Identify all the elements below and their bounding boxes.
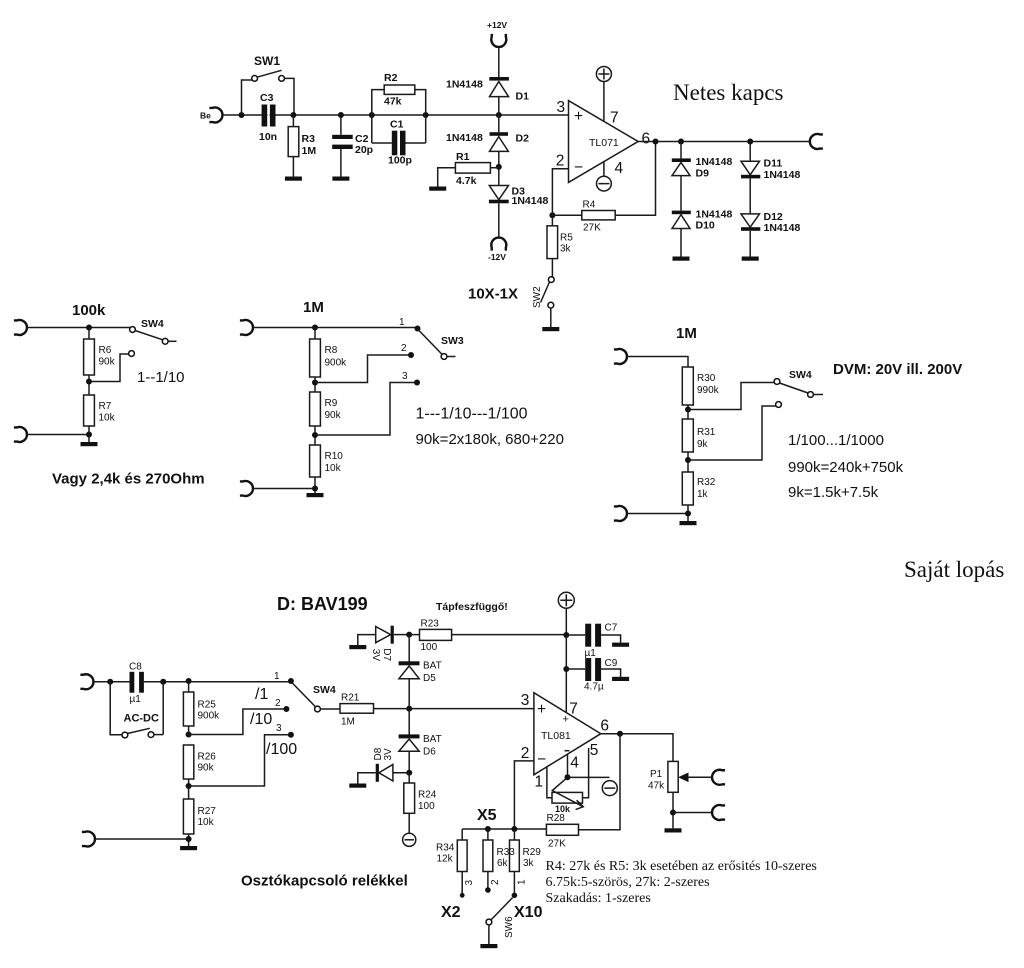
svg-text:SW4: SW4: [313, 684, 336, 696]
svg-text:27K: 27K: [583, 223, 601, 234]
svg-text:R21: R21: [341, 693, 360, 704]
svg-text:R31: R31: [697, 427, 716, 438]
svg-text:R26: R26: [198, 752, 217, 763]
svg-text:6: 6: [600, 718, 609, 735]
svg-text:4: 4: [570, 755, 579, 772]
svg-text:R3: R3: [302, 133, 316, 145]
svg-text:10k: 10k: [325, 463, 342, 474]
svg-text:9k: 9k: [697, 439, 709, 450]
svg-text:2: 2: [521, 745, 530, 762]
svg-text:900k: 900k: [325, 358, 348, 369]
svg-text:1/100...1/1000: 1/100...1/1000: [788, 432, 884, 449]
svg-text:1M: 1M: [341, 717, 355, 728]
svg-text:2: 2: [275, 698, 281, 709]
svg-text:R9: R9: [325, 398, 338, 409]
svg-text:47k: 47k: [648, 781, 665, 792]
svg-text:3: 3: [276, 723, 282, 734]
svg-text:100k: 100k: [72, 302, 106, 319]
svg-text:R23: R23: [421, 619, 440, 630]
svg-text:10k: 10k: [198, 817, 215, 828]
svg-text:1N4148: 1N4148: [764, 169, 801, 181]
svg-text:SW4: SW4: [789, 369, 812, 381]
svg-text:3k: 3k: [523, 858, 535, 869]
svg-text:20p: 20p: [355, 144, 373, 156]
svg-text:1M: 1M: [676, 325, 697, 342]
svg-text:6.75k:5-szörös, 27k: 2-szeres: 6.75k:5-szörös, 27k: 2-szeres: [546, 875, 710, 890]
svg-text:90k=2x180k, 680+220: 90k=2x180k, 680+220: [416, 431, 564, 448]
svg-text:C8: C8: [129, 662, 142, 673]
svg-text:D11: D11: [764, 158, 783, 170]
svg-text:R30: R30: [697, 373, 716, 384]
svg-text:100p: 100p: [388, 155, 412, 167]
svg-text:1: 1: [399, 317, 405, 328]
svg-text:90k: 90k: [325, 410, 342, 421]
svg-text:10n: 10n: [259, 131, 277, 143]
svg-text:C7: C7: [605, 623, 618, 634]
svg-text:R27: R27: [198, 806, 217, 817]
svg-text:R10: R10: [325, 451, 344, 462]
svg-text:DVM: 20V ill. 200V: DVM: 20V ill. 200V: [833, 361, 962, 378]
svg-text:3V: 3V: [370, 649, 381, 662]
svg-text:D2: D2: [516, 133, 530, 145]
svg-text:4.7k: 4.7k: [456, 175, 477, 187]
svg-text:R28: R28: [547, 813, 566, 824]
svg-text:100: 100: [421, 642, 438, 653]
svg-text:1N4148: 1N4148: [446, 132, 483, 144]
svg-text:D: BAV199: D: BAV199: [277, 594, 368, 614]
svg-text:10X-1X: 10X-1X: [468, 286, 518, 303]
svg-text:9k=1.5k+7.5k: 9k=1.5k+7.5k: [788, 484, 879, 501]
svg-text:7: 7: [569, 701, 578, 718]
svg-text:R6: R6: [99, 345, 112, 356]
svg-text:3: 3: [557, 99, 566, 116]
svg-text:1: 1: [535, 774, 544, 791]
svg-text:1M: 1M: [302, 145, 317, 157]
svg-text:+12V: +12V: [487, 20, 507, 30]
svg-text:BAT: BAT: [423, 661, 442, 672]
svg-text:Szakadás: 1-szeres: Szakadás: 1-szeres: [546, 891, 651, 906]
svg-text:1--1/10: 1--1/10: [137, 369, 185, 386]
svg-text:27K: 27K: [548, 839, 566, 850]
svg-text:Vagy 2,4k és 270Ohm: Vagy 2,4k és 270Ohm: [52, 471, 205, 488]
svg-text:µ1: µ1: [130, 694, 142, 705]
svg-text:10k: 10k: [99, 413, 116, 424]
svg-text:R29: R29: [523, 847, 542, 858]
svg-text:TL071: TL071: [589, 137, 619, 149]
svg-text:90k: 90k: [99, 357, 116, 368]
svg-text:C9: C9: [605, 658, 618, 669]
svg-text:/10: /10: [250, 711, 272, 728]
svg-text:6k: 6k: [497, 858, 509, 869]
svg-text:90k: 90k: [198, 763, 215, 774]
svg-text:+: +: [563, 714, 569, 726]
svg-text:-12V: -12V: [488, 252, 506, 262]
svg-text:1---1/10---1/100: 1---1/10---1/100: [416, 406, 528, 423]
svg-text:1: 1: [274, 671, 280, 682]
svg-text:X5: X5: [477, 807, 497, 824]
svg-text:R34: R34: [436, 843, 455, 854]
svg-text:C1: C1: [390, 119, 404, 131]
svg-text:Saját lopás: Saját lopás: [904, 557, 1004, 582]
svg-text:R5: R5: [560, 233, 573, 244]
svg-text:47k: 47k: [384, 96, 402, 108]
svg-text:R7: R7: [99, 401, 112, 412]
svg-text:2: 2: [401, 343, 407, 354]
svg-text:R4: R4: [583, 200, 596, 211]
svg-text:R24: R24: [418, 790, 437, 801]
svg-text:X2: X2: [441, 904, 461, 921]
svg-text:R8: R8: [325, 345, 338, 356]
svg-text:3k: 3k: [560, 244, 572, 255]
svg-text:100: 100: [418, 801, 435, 812]
svg-text:Be: Be: [200, 111, 211, 121]
svg-text:2: 2: [490, 879, 501, 885]
svg-text:AC-DC: AC-DC: [124, 713, 159, 725]
svg-text:3V: 3V: [383, 748, 394, 761]
svg-text:4: 4: [615, 160, 624, 177]
svg-text:1N4148: 1N4148: [446, 79, 483, 91]
svg-text:Osztókapcsoló relékkel: Osztókapcsoló relékkel: [241, 873, 408, 890]
svg-text:+: +: [537, 701, 546, 718]
svg-text:1: 1: [517, 879, 528, 885]
svg-text:R33: R33: [497, 847, 516, 858]
svg-text:R4: 27k és R5: 3k esetében az: R4: 27k és R5: 3k esetében az erősités 1…: [546, 859, 817, 874]
svg-text:D5: D5: [423, 673, 436, 684]
svg-text:12k: 12k: [437, 854, 454, 865]
svg-text:/1: /1: [255, 686, 268, 703]
svg-text:900k: 900k: [198, 711, 221, 722]
svg-text:D6: D6: [423, 747, 436, 758]
svg-text:990k: 990k: [697, 385, 720, 396]
svg-text:Tápfeszfüggő!: Tápfeszfüggő!: [436, 601, 508, 613]
svg-text:D10: D10: [696, 220, 715, 232]
svg-text:P1: P1: [650, 769, 663, 780]
svg-text:Netes kapcs: Netes kapcs: [673, 80, 784, 105]
svg-text:SW3: SW3: [441, 335, 464, 347]
svg-text:1M: 1M: [303, 299, 324, 316]
svg-text:BAT: BAT: [423, 734, 442, 745]
svg-text:2: 2: [556, 153, 565, 170]
svg-text:D1: D1: [516, 91, 530, 103]
svg-text:6: 6: [642, 131, 651, 148]
svg-text:1k: 1k: [697, 489, 709, 500]
svg-text:3: 3: [402, 371, 408, 382]
svg-text:1N4148: 1N4148: [764, 222, 801, 234]
svg-text:5: 5: [590, 742, 599, 759]
svg-text:3: 3: [464, 880, 475, 886]
svg-text:+: +: [574, 108, 583, 125]
svg-text:−: −: [574, 159, 583, 176]
svg-text:R2: R2: [384, 72, 398, 84]
svg-text:C3: C3: [260, 92, 274, 104]
svg-text:SW2: SW2: [532, 286, 543, 308]
svg-text:D9: D9: [696, 168, 710, 180]
svg-text:4.7µ: 4.7µ: [584, 682, 604, 693]
svg-text:1N4148: 1N4148: [696, 156, 733, 168]
svg-text:R25: R25: [198, 700, 217, 711]
svg-text:X10: X10: [514, 904, 543, 921]
svg-text:SW4: SW4: [141, 318, 164, 330]
svg-text:990k=240k+750k: 990k=240k+750k: [788, 459, 904, 476]
svg-text:/100: /100: [266, 741, 297, 758]
svg-text:R1: R1: [456, 151, 470, 163]
svg-text:D7: D7: [381, 648, 392, 661]
svg-text:R32: R32: [697, 477, 716, 488]
svg-text:3: 3: [521, 692, 530, 709]
svg-text:TL081: TL081: [541, 730, 571, 742]
svg-text:−: −: [537, 751, 546, 768]
svg-text:1N4148: 1N4148: [512, 195, 549, 207]
svg-text:7: 7: [610, 110, 619, 127]
svg-text:SW1: SW1: [254, 54, 280, 68]
svg-text:µ1: µ1: [585, 648, 597, 659]
